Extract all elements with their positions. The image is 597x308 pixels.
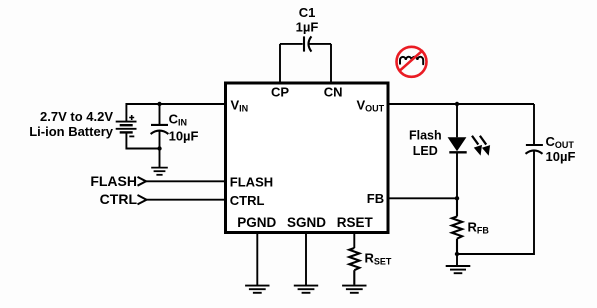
- svg-text:CTRL: CTRL: [230, 193, 265, 208]
- svg-text:Flash: Flash: [409, 129, 442, 143]
- svg-text:RSET: RSET: [365, 250, 392, 266]
- svg-text:COUT: COUT: [546, 134, 575, 150]
- svg-text:LED: LED: [413, 144, 438, 158]
- ground (battery/CIN): [151, 168, 168, 175]
- node FB junction dot: [455, 196, 459, 200]
- svg-text:RFB: RFB: [468, 219, 490, 235]
- svg-text:SGND: SGND: [287, 215, 326, 230]
- wire CTRL: [147, 199, 226, 201]
- wire battery bottom: [126, 133, 159, 149]
- op-amp U1 (flash LED driver IC body): [226, 83, 389, 233]
- wire to LED ground: [456, 254, 458, 266]
- svg-text:CTRL: CTRL: [100, 191, 138, 207]
- capacitor COUT: [457, 104, 543, 254]
- wire SGND pin: [305, 233, 307, 286]
- resistor RSET: [349, 248, 359, 285]
- wire PGND pin: [256, 233, 258, 286]
- capacitor C1: [280, 36, 331, 51]
- wire CN pin: [330, 44, 332, 83]
- wire VOUT to COUT: [388, 103, 534, 105]
- ground PGND: [245, 286, 269, 293]
- svg-text:CN: CN: [324, 84, 343, 99]
- svg-text:Li-ion Battery: Li-ion Battery: [29, 124, 114, 139]
- svg-text:1µF: 1µF: [296, 19, 319, 34]
- battery BT1: [116, 115, 137, 136]
- wire FB pin: [388, 197, 457, 199]
- svg-text:FB: FB: [367, 191, 384, 206]
- wire battery top to VIN pin: [126, 104, 225, 122]
- svg-text:PGND: PGND: [237, 215, 276, 230]
- ground SGND: [294, 286, 318, 293]
- svg-text:FLASH: FLASH: [230, 174, 273, 189]
- svg-text:10µF: 10µF: [169, 129, 199, 144]
- wire to ground: [159, 149, 161, 168]
- svg-text:C1: C1: [299, 5, 316, 20]
- ground RSET: [342, 286, 366, 293]
- svg-text:10µF: 10µF: [546, 149, 576, 164]
- svg-text:CIN: CIN: [169, 112, 187, 128]
- capacitor CIN: [151, 125, 169, 149]
- svg-text:2.7V to 4.2V: 2.7V to 4.2V: [40, 109, 113, 124]
- CTRL input arrow: [138, 195, 147, 204]
- no-inductor icon: [397, 47, 427, 77]
- node VOUT junction dot: [455, 102, 459, 106]
- wire FLASH: [146, 180, 226, 182]
- node VIN junction dot: [157, 102, 161, 106]
- svg-text:RSET: RSET: [337, 215, 374, 230]
- LED D1: [448, 137, 467, 198]
- wire CP pin: [279, 44, 281, 83]
- wire CIN top lead: [159, 104, 161, 124]
- FLASH input arrow: [138, 177, 147, 186]
- LED arrows: [471, 135, 490, 156]
- node bottom junction dot: [157, 146, 161, 150]
- resistor RFB: [452, 198, 462, 254]
- wire LED anode lead: [456, 104, 458, 137]
- wire RSET pin: [353, 233, 355, 249]
- ground (LED/RFB): [446, 266, 471, 273]
- svg-text:CP: CP: [271, 84, 289, 99]
- svg-text:FLASH: FLASH: [90, 173, 137, 189]
- node RFB bottom junction dot: [455, 252, 459, 256]
